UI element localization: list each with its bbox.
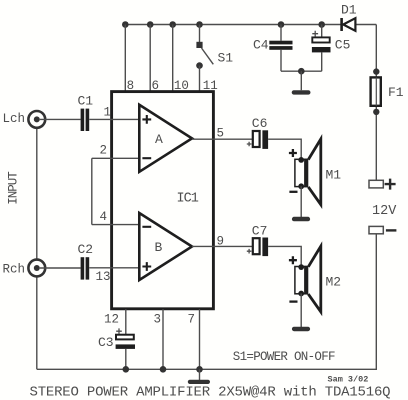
- wire: pin 13 lead into B+: [89, 267, 139, 269]
- svg-text:Sam 3/02: Sam 3/02: [328, 375, 369, 385]
- svg-text:F1: F1: [388, 85, 404, 100]
- wire: input shield vertical from Lch down to bottom rail: [36, 119, 38, 369]
- op-amp IC1 package box: [112, 92, 214, 309]
- svg-text:IC1: IC1: [177, 191, 199, 206]
- svg-text:M1: M1: [326, 167, 342, 182]
- wire: M2 to ground: [300, 294, 302, 328]
- ground (under M2): [292, 327, 310, 332]
- wire: pin 12 down to C3: [125, 309, 127, 334]
- node: pin12 junction: [123, 366, 130, 373]
- wire: pin 8 riser: [124, 25, 126, 92]
- svg-text:2: 2: [100, 144, 108, 158]
- svg-text:INPUT: INPUT: [7, 171, 21, 205]
- wire: pin 1 lead into A+: [89, 118, 139, 120]
- op-amp B: [139, 213, 192, 280]
- svg-text:C6: C6: [252, 116, 268, 131]
- svg-text:STEREO POWER AMPLIFIER 2X5W@4R: STEREO POWER AMPLIFIER 2X5W@4R with TDA1…: [30, 385, 391, 400]
- op-amp A: [139, 105, 192, 172]
- wire: C3 to bottom rail: [125, 349, 127, 369]
- svg-text:B: B: [155, 240, 163, 255]
- wire: stem to ground under C4/C5: [300, 71, 302, 90]
- wire: pin 2 lead into A-: [92, 157, 140, 159]
- wire: battery - down and left along bottom to ground rail: [200, 234, 377, 369]
- svg-text:4: 4: [100, 210, 108, 224]
- capacitor C5: [312, 25, 351, 72]
- svg-text:S1: S1: [218, 50, 234, 65]
- svg-text:C1: C1: [78, 93, 94, 108]
- wire: pin 7 down to rail: [199, 309, 201, 369]
- svg-text:M2: M2: [326, 275, 342, 290]
- diode D1: [341, 3, 357, 31]
- svg-text:1: 1: [104, 106, 112, 120]
- svg-text:13: 13: [96, 270, 111, 284]
- ground (under C4/C5): [292, 90, 311, 94]
- svg-text:D1: D1: [341, 3, 357, 18]
- battery + terminal: [369, 179, 396, 190]
- capacitor C1: [78, 93, 94, 131]
- svg-text:5: 5: [217, 127, 225, 141]
- wire: C6 to M1: [268, 139, 301, 159]
- RCA connector Lch: [28, 111, 80, 128]
- capacitor C4: [253, 25, 293, 72]
- wire: pin 9 output to C7: [192, 245, 253, 247]
- wire: top supply rail left segment: [125, 24, 341, 26]
- wire: pin 3 down to rail: [162, 309, 164, 369]
- wire: M1 to ground: [300, 186, 302, 217]
- speaker M1: [289, 139, 341, 205]
- svg-text:12: 12: [104, 313, 119, 327]
- capacitor C7: [247, 223, 268, 256]
- junction dots on top rail: [122, 21, 129, 28]
- svg-text:C3: C3: [98, 335, 114, 350]
- svg-text:Rch: Rch: [3, 262, 26, 276]
- svg-text:C5: C5: [335, 37, 351, 52]
- svg-text:7: 7: [188, 313, 196, 327]
- wire: pin 4 lead into B-: [92, 224, 140, 226]
- wire: pin 6 riser: [149, 25, 151, 92]
- node: pin3 junction: [160, 366, 167, 373]
- svg-text:Lch: Lch: [3, 112, 26, 126]
- capacitor C6: [247, 116, 268, 149]
- svg-text:12V: 12V: [372, 204, 397, 219]
- svg-text:C7: C7: [252, 223, 268, 238]
- wire: bottom ground rail: [37, 368, 200, 370]
- switch S1: [196, 25, 233, 92]
- capacitor C3: [98, 328, 135, 350]
- svg-text:C2: C2: [78, 242, 94, 257]
- svg-text:3: 3: [154, 313, 162, 327]
- ground (under M1): [292, 217, 310, 222]
- capacitor C2: [78, 242, 94, 279]
- wire: top rail from diode to right corner: [356, 24, 377, 26]
- svg-text:S1=POWER ON-OFF: S1=POWER ON-OFF: [233, 350, 335, 364]
- fuse F1: [371, 68, 404, 115]
- RCA connector Rch: [28, 260, 80, 277]
- svg-text:9: 9: [217, 235, 225, 249]
- ground (main, under pin 7): [188, 369, 210, 384]
- speaker M2: [289, 246, 341, 312]
- node: C4/C5 junction: [298, 68, 305, 75]
- battery - terminal: [369, 226, 396, 233]
- wire: C4/C5 joining wire: [281, 70, 322, 72]
- wire: pin 5 output to C6: [192, 138, 253, 140]
- wire: right vertical supply wire down to battery +: [375, 25, 377, 181]
- wire: pin 10 riser: [172, 25, 174, 92]
- node: pin7 junction: [196, 366, 203, 373]
- svg-text:A: A: [155, 132, 163, 147]
- wire: C7 to M2: [268, 246, 301, 266]
- wire: feedback loop pin2-pin4 vertical: [91, 158, 93, 224]
- svg-text:C4: C4: [253, 37, 269, 52]
